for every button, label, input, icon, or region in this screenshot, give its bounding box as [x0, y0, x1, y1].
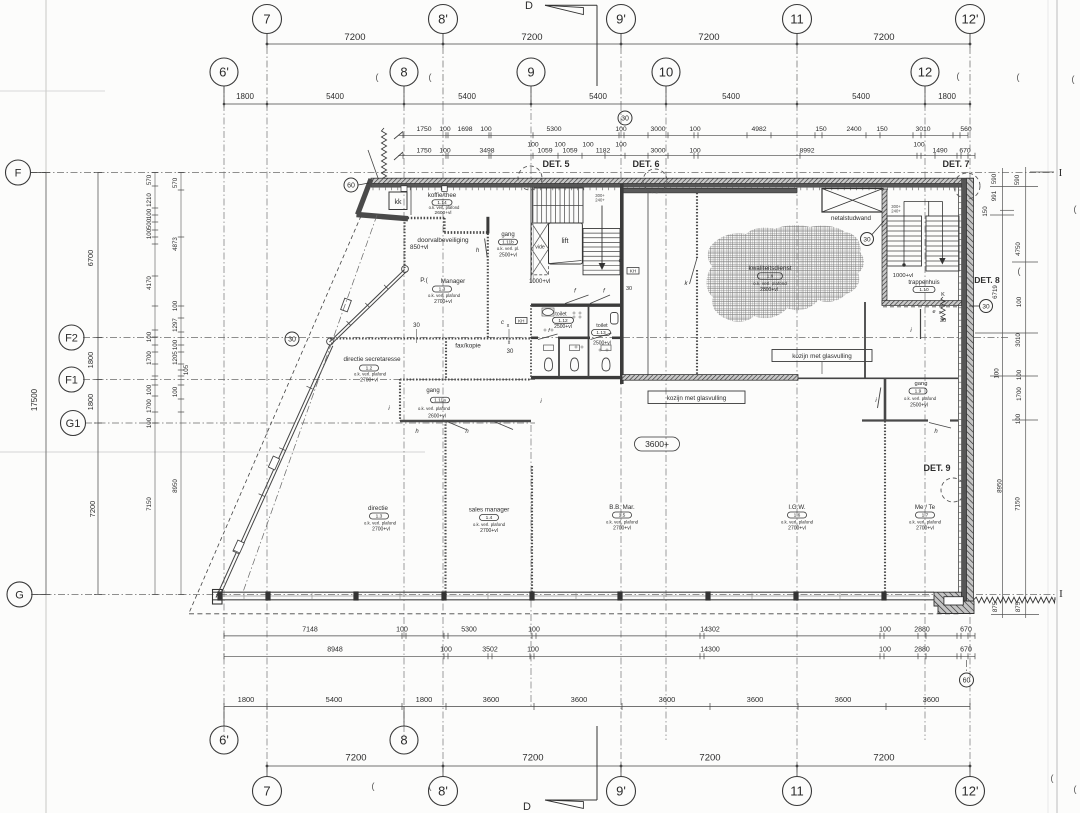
- bottom grid bubble 12': [956, 777, 985, 806]
- curtain wall node A: [402, 266, 409, 273]
- svg-text:7150: 7150: [146, 497, 153, 511]
- svg-text:150: 150: [876, 126, 888, 133]
- door manager: [485, 239, 488, 258]
- svg-text:100: 100: [615, 142, 627, 149]
- door k: [690, 258, 698, 284]
- grid bubble F1: [59, 367, 84, 392]
- svg-text:G1: G1: [66, 418, 81, 430]
- svg-text:30: 30: [621, 116, 629, 123]
- top dim row 4: [398, 155, 975, 157]
- dim row end slashes + break zigzag: [394, 132, 403, 140]
- svg-text:1.4: 1.4: [486, 515, 493, 521]
- grid bubble G1: [61, 411, 86, 436]
- svg-text:fax/kopie: fax/kopie: [455, 343, 481, 350]
- svg-text:12': 12': [962, 784, 979, 799]
- svg-text:1700: 1700: [1016, 387, 1023, 401]
- kwaliteitsdienst hatch cloud: [706, 225, 863, 322]
- svg-text:o.k. verl. pl.: o.k. verl. pl.: [497, 246, 519, 251]
- svg-text:o.k. verl. plafond: o.k. verl. plafond: [781, 520, 814, 525]
- svg-text:100: 100: [1016, 369, 1023, 380]
- svg-text:3502: 3502: [482, 647, 498, 654]
- svg-text:K: K: [941, 292, 945, 298]
- svg-text:30: 30: [288, 337, 296, 344]
- grid bubble 12': [956, 5, 985, 34]
- grid bubble 8': [429, 5, 458, 34]
- svg-text:1059: 1059: [537, 148, 552, 155]
- svg-text:kk: kk: [395, 199, 403, 206]
- svg-text:DET. 5: DET. 5: [542, 159, 569, 169]
- gang 1.9 room: [862, 419, 928, 421]
- 3600+ tag: [635, 437, 680, 451]
- svg-text:3600: 3600: [747, 695, 764, 704]
- glazing joint ticks on curtain wall: [384, 285, 388, 290]
- svg-text:4170: 4170: [146, 276, 153, 290]
- svg-text:7150: 7150: [1015, 497, 1022, 511]
- KH box left: [516, 318, 528, 324]
- partition x445.5: [444, 421, 446, 592]
- svg-text:o.k. verl. plafond: o.k. verl. plafond: [354, 372, 387, 377]
- svg-text:100: 100: [913, 142, 925, 149]
- horizontal grid lines: [30, 172, 1055, 174]
- svg-text:100: 100: [527, 647, 539, 654]
- svg-text:o.k. verl. plafond: o.k. verl. plafond: [909, 520, 942, 525]
- svg-text:8: 8: [400, 733, 407, 748]
- grid bubble 11: [783, 5, 812, 34]
- svg-text:105: 105: [183, 364, 190, 375]
- svg-text:o.k. verl. plafond: o.k. verl. plafond: [429, 205, 460, 210]
- svg-text:6719: 6719: [992, 285, 999, 299]
- svg-text:100: 100: [1015, 413, 1022, 424]
- svg-text:1800: 1800: [938, 92, 956, 101]
- svg-text:D: D: [523, 801, 531, 813]
- svg-text:6': 6': [219, 733, 229, 748]
- svg-text:o.k. verl. plafond: o.k. verl. plafond: [428, 293, 461, 298]
- svg-text:1.13: 1.13: [596, 330, 606, 336]
- svg-text:8948: 8948: [327, 647, 343, 654]
- I section marker right top: [1030, 171, 1054, 173]
- grid bubble 10: [652, 58, 680, 86]
- svg-text:11: 11: [790, 12, 804, 27]
- curtain wall segment A (45deg): [332, 272, 407, 345]
- svg-text:3600: 3600: [571, 695, 588, 704]
- stud wall grid8 top: [403, 219, 405, 268]
- bottom grid bubble 8: [390, 726, 418, 754]
- svg-text:6700: 6700: [86, 250, 95, 267]
- grid bubble 7: [253, 5, 282, 34]
- svg-text:2400: 2400: [846, 126, 861, 133]
- svg-text:o.k. verl. plafond: o.k. verl. plafond: [904, 396, 937, 401]
- top dimension line 7200: [267, 43, 970, 45]
- kozijn label boxed upper: [772, 350, 872, 362]
- svg-text:DET. 9: DET. 9: [923, 463, 950, 473]
- svg-text:100: 100: [689, 148, 701, 155]
- left dim chain 3: [154, 173, 156, 595]
- left dim chain 2: [97, 173, 99, 595]
- svg-text:100: 100: [439, 148, 451, 155]
- kozijn label boxed lower: [648, 391, 745, 404]
- svg-text:100: 100: [146, 331, 153, 342]
- top exterior wall: [371, 178, 974, 183]
- svg-text:100: 100: [172, 386, 179, 397]
- svg-text:240+: 240+: [891, 209, 901, 214]
- wall below koffie/thee (notched): [398, 217, 445, 220]
- svg-text:trappenhuis: trappenhuis: [908, 280, 939, 286]
- faint top-left mark: [0, 90, 105, 92]
- partition fax/kopie: [445, 338, 447, 380]
- svg-text:5400: 5400: [589, 92, 607, 101]
- svg-text:I: I: [1059, 588, 1063, 600]
- outer dashed setback line: [189, 216, 361, 613]
- svg-text:100: 100: [396, 627, 408, 634]
- svg-text:1.9: 1.9: [915, 389, 922, 395]
- svg-text:4750: 4750: [1015, 242, 1022, 256]
- lift shaft left wall: [530, 187, 532, 283]
- door at x920: [920, 309, 922, 339]
- top dim row 3: [398, 134, 968, 136]
- svg-text:1.3: 1.3: [376, 514, 383, 520]
- svg-text:6': 6': [219, 65, 229, 80]
- stud ticks left of right wall: [959, 189, 962, 191]
- svg-text:kwaliteitsdienst: kwaliteitsdienst: [749, 265, 792, 272]
- svg-text:3600: 3600: [835, 695, 852, 704]
- svg-text:o.k. verl. plafond: o.k. verl. plafond: [753, 281, 787, 286]
- right exterior wall: [967, 178, 974, 601]
- svg-text:1750: 1750: [416, 148, 431, 155]
- svg-text:9': 9': [616, 784, 626, 799]
- svg-text:7200: 7200: [873, 32, 894, 43]
- metalstud wand box: [822, 189, 883, 213]
- svg-text:100: 100: [994, 368, 1001, 379]
- svg-text:2700+vl: 2700+vl: [916, 526, 934, 532]
- svg-text:9': 9': [616, 12, 626, 27]
- corner block bottom left: [213, 590, 223, 605]
- svg-text:590: 590: [1014, 174, 1021, 185]
- svg-text:3000: 3000: [650, 148, 665, 155]
- vertical grid lines: [266, 34, 268, 105]
- svg-text:(: (: [1074, 204, 1077, 214]
- svg-text:lift: lift: [562, 238, 569, 245]
- stair flight right of lift: [583, 229, 620, 275]
- wall x885: [884, 378, 887, 421]
- svg-text:1700: 1700: [146, 399, 153, 413]
- svg-text:2700+vl: 2700+vl: [372, 527, 390, 533]
- svg-text:3000: 3000: [650, 126, 665, 133]
- svg-text:100: 100: [528, 627, 540, 634]
- svg-text:1698: 1698: [457, 126, 472, 133]
- svg-text:1000+vl: 1000+vl: [529, 279, 550, 285]
- svg-text:30: 30: [940, 318, 946, 324]
- svg-text:7200: 7200: [345, 753, 366, 764]
- svg-text:(: (: [1072, 74, 1075, 84]
- svg-text:8': 8': [438, 12, 448, 27]
- bottom grid bubble 7: [253, 777, 282, 806]
- detail circle 60 top left: [344, 178, 358, 192]
- svg-text:4982: 4982: [751, 126, 766, 133]
- svg-text:3010: 3010: [1015, 333, 1022, 347]
- svg-text:100: 100: [146, 228, 153, 239]
- svg-text:8950: 8950: [172, 479, 179, 493]
- grab-bar crosses: [572, 312, 575, 314]
- svg-text:5400: 5400: [722, 92, 740, 101]
- svg-text:3600: 3600: [483, 695, 500, 704]
- svg-text:60: 60: [347, 183, 355, 190]
- svg-text:1800: 1800: [236, 92, 254, 101]
- grid bubble 9': [607, 5, 636, 34]
- svg-text:30: 30: [863, 237, 871, 244]
- vide strip with X: [532, 223, 549, 275]
- svg-text:toilet: toilet: [555, 312, 567, 318]
- svg-text:1.6: 1.6: [794, 513, 801, 519]
- gang 1.11a room walls: [400, 378, 531, 380]
- corner lower band: [357, 215, 409, 219]
- svg-text:1210: 1210: [146, 193, 153, 207]
- svg-text:100: 100: [439, 126, 451, 133]
- svg-text:KH: KH: [518, 318, 524, 323]
- svg-text:directie secretaresse: directie secretaresse: [343, 356, 401, 363]
- svg-text:F1: F1: [65, 374, 78, 386]
- svg-text:DET. 7: DET. 7: [942, 159, 969, 169]
- paper border line left: [45, 0, 47, 813]
- washbasin upper left: [543, 309, 554, 316]
- grid bubble F2: [59, 325, 84, 350]
- heavy wall right of lift: [620, 184, 624, 384]
- svg-text:(: (: [376, 72, 379, 82]
- toilet stall dividers lower: [558, 339, 560, 377]
- svg-text:2700+vl: 2700+vl: [434, 299, 452, 305]
- toilet mid wall door leafs: [538, 334, 558, 340]
- svg-text:11: 11: [790, 784, 804, 799]
- stud ticks under top wall: [372, 188, 374, 191]
- detail circle 30 (trappenhuis): [861, 233, 874, 246]
- corridor stud wall F2: [330, 337, 531, 339]
- svg-text:gang: gang: [501, 232, 514, 238]
- svg-text:1490: 1490: [932, 148, 947, 155]
- dash-dot diagonal reference: [243, 215, 377, 592]
- svg-text:12: 12: [918, 65, 932, 80]
- svg-text:8950: 8950: [997, 479, 1004, 493]
- svg-text:100: 100: [615, 126, 627, 133]
- svg-text:9: 9: [527, 65, 534, 80]
- svg-text:sales manager: sales manager: [469, 507, 510, 514]
- svg-text:2500+vl: 2500+vl: [554, 324, 572, 330]
- svg-text:Manager: Manager: [441, 278, 465, 285]
- svg-text:c: c: [501, 320, 504, 326]
- trappenhuis walls: [882, 189, 887, 305]
- svg-text:2880: 2880: [914, 647, 930, 654]
- svg-text:toilet: toilet: [596, 323, 608, 329]
- svg-text:3600: 3600: [923, 695, 940, 704]
- svg-text:1.11a: 1.11a: [434, 398, 446, 404]
- svg-text:5300: 5300: [546, 126, 561, 133]
- svg-text:5400: 5400: [326, 92, 344, 101]
- svg-text:2700+vl: 2700+vl: [360, 378, 378, 384]
- svg-text:DET. 8: DET. 8: [974, 275, 1000, 285]
- svg-text:14300: 14300: [700, 647, 720, 654]
- svg-text:100: 100: [172, 300, 179, 311]
- detail circle 30 right wall: [980, 300, 993, 313]
- trappenhuis dashed bottom: [883, 306, 960, 308]
- column post right of koffie: [486, 217, 489, 234]
- svg-text:30: 30: [982, 304, 990, 311]
- scan fold line: [0, 451, 425, 453]
- svg-text:8: 8: [400, 65, 407, 80]
- svg-text:1.3: 1.3: [439, 287, 446, 293]
- bottom right corner step: [934, 592, 974, 613]
- toilet mid wall: [531, 336, 538, 339]
- svg-text:I.G.W.: I.G.W.: [788, 504, 805, 511]
- doors from gang 1.11a: [447, 422, 466, 430]
- svg-text:2800+vl: 2800+vl: [760, 287, 778, 293]
- bottom grid bubble 11: [783, 777, 812, 806]
- door into gang 1.9: [878, 388, 881, 409]
- svg-text:670: 670: [959, 148, 971, 155]
- left dim chain 4: [180, 173, 182, 595]
- svg-text:o.k. verl. plafond: o.k. verl. plafond: [364, 521, 397, 526]
- svg-text:570: 570: [172, 177, 179, 188]
- bottom dim row 1: [224, 635, 975, 637]
- svg-text:100: 100: [689, 126, 701, 133]
- curtain wall segment B: [216, 345, 330, 598]
- window mullions: [217, 591, 222, 600]
- svg-text:500: 500: [146, 218, 153, 229]
- svg-text:Me / Te: Me / Te: [915, 504, 936, 511]
- svg-text:gang: gang: [426, 388, 439, 394]
- svg-text:(: (: [1017, 72, 1020, 82]
- kk closet: [389, 192, 407, 210]
- svg-text:2700+vl: 2700+vl: [788, 526, 806, 532]
- svg-text:e: e: [932, 309, 935, 315]
- svg-text:100: 100: [146, 208, 153, 219]
- svg-text:2500+vl: 2500+vl: [910, 403, 928, 409]
- svg-text:3010: 3010: [915, 126, 930, 133]
- window frame joints: [243, 592, 245, 600]
- svg-text:7200: 7200: [88, 501, 97, 518]
- stair stems/arrow: [903, 201, 905, 265]
- svg-text:60: 60: [963, 678, 971, 685]
- svg-text:vide: vide: [535, 245, 545, 251]
- svg-text:100: 100: [879, 627, 891, 634]
- svg-text:8': 8': [438, 784, 448, 799]
- svg-text:(: (: [957, 71, 960, 81]
- wall x865: [864, 302, 866, 378]
- svg-text:(: (: [1018, 266, 1021, 276]
- svg-text:2500+vl: 2500+vl: [593, 341, 611, 347]
- svg-text:7200: 7200: [344, 32, 365, 43]
- bottom dashed outside line: [189, 613, 960, 615]
- svg-text:3498: 3498: [479, 148, 494, 155]
- KH box right: [627, 268, 639, 275]
- svg-text:1700: 1700: [146, 351, 153, 365]
- top-left corner angled wall: [358, 179, 372, 215]
- svg-text:2600+vl: 2600+vl: [435, 210, 452, 216]
- svg-text:koffie/thee: koffie/thee: [428, 192, 457, 199]
- svg-text:1.5: 1.5: [619, 513, 626, 519]
- svg-text:F2: F2: [65, 332, 78, 344]
- svg-text:240+: 240+: [595, 198, 605, 203]
- toilet stall divider upper: [588, 306, 590, 338]
- svg-text:1800: 1800: [416, 695, 433, 704]
- svg-text:7200: 7200: [522, 753, 543, 764]
- svg-text:7200: 7200: [698, 32, 719, 43]
- svg-text:570: 570: [146, 174, 153, 185]
- svg-text:1297: 1297: [172, 318, 179, 332]
- svg-text:kozijn met glasvulling: kozijn met glasvulling: [667, 395, 727, 402]
- svg-text:12': 12': [962, 12, 979, 27]
- svg-text:c: c: [619, 258, 622, 264]
- kozijn wall thin right: [798, 377, 958, 379]
- svg-text:2880: 2880: [914, 627, 930, 634]
- partition manager right: [487, 234, 489, 339]
- partition wall x648: [647, 190, 649, 380]
- svg-text:(: (: [372, 781, 375, 791]
- svg-text:5400: 5400: [326, 695, 343, 704]
- svg-text:3600: 3600: [659, 695, 676, 704]
- svg-text:1800: 1800: [86, 394, 95, 411]
- svg-text:100: 100: [440, 647, 452, 654]
- svg-text:5400: 5400: [852, 92, 870, 101]
- svg-text:o.k. verl. plafond: o.k. verl. plafond: [473, 522, 506, 527]
- grid bubble 9: [517, 58, 545, 86]
- svg-text:o.k. verl. plafond: o.k. verl. plafond: [606, 520, 639, 525]
- svg-text:560: 560: [960, 126, 972, 133]
- lift cab: [549, 223, 583, 264]
- grid bubble G: [7, 582, 32, 607]
- svg-text:2700+vl: 2700+vl: [613, 526, 631, 532]
- svg-text:7200: 7200: [699, 753, 720, 764]
- svg-text:2700+vl: 2700+vl: [480, 528, 498, 534]
- grid bubble 8: [390, 58, 418, 86]
- toilet doors top: [565, 295, 589, 304]
- svg-text:(: (: [1051, 773, 1054, 783]
- right dim chain R2: [1025, 167, 1027, 618]
- grid bubble F: [6, 160, 31, 185]
- inner top wall kwaliteitsdienst: [622, 188, 797, 193]
- WC bowls lower row: [545, 358, 553, 371]
- svg-text:100: 100: [146, 417, 153, 428]
- svg-text:10: 10: [659, 65, 673, 80]
- stair direction arrow: [601, 206, 603, 264]
- svg-text:590: 590: [991, 173, 998, 184]
- svg-text:netalstudwand: netalstudwand: [831, 215, 871, 222]
- svg-text:KH: KH: [630, 269, 636, 274]
- bottom dim row 4 (7200s): [267, 765, 970, 767]
- svg-text:850+vl: 850+vl: [410, 244, 428, 251]
- right dim chain R1: [1002, 168, 1004, 618]
- kozijn wall thick: [622, 375, 798, 381]
- svg-text:100: 100: [1016, 296, 1023, 307]
- svg-text:D: D: [525, 0, 533, 12]
- svg-text:2500+vl: 2500+vl: [499, 253, 517, 259]
- svg-text:17500: 17500: [30, 388, 39, 411]
- svg-text:F: F: [15, 167, 22, 179]
- svg-text:7: 7: [263, 12, 270, 27]
- detail circle 30 at 9 prime: [618, 111, 632, 125]
- svg-text:7148: 7148: [302, 627, 318, 634]
- svg-text:B.B. Mar.: B.B. Mar.: [609, 504, 635, 511]
- svg-text:gang: gang: [915, 381, 928, 387]
- svg-text:8992: 8992: [799, 148, 814, 155]
- toilet block outline: [531, 304, 621, 307]
- svg-text:(: (: [1074, 784, 1077, 794]
- svg-text:o.k. verl. plafond: o.k. verl. plafond: [418, 406, 451, 411]
- svg-text:150: 150: [982, 206, 989, 217]
- svg-text:P.(: P.(: [420, 277, 428, 284]
- bottom grid bubble 9': [607, 777, 636, 806]
- bottom grid bubble 6': [210, 726, 238, 754]
- svg-text:100: 100: [582, 142, 594, 149]
- stud partition x697: [696, 193, 698, 258]
- svg-text:1059: 1059: [562, 148, 577, 155]
